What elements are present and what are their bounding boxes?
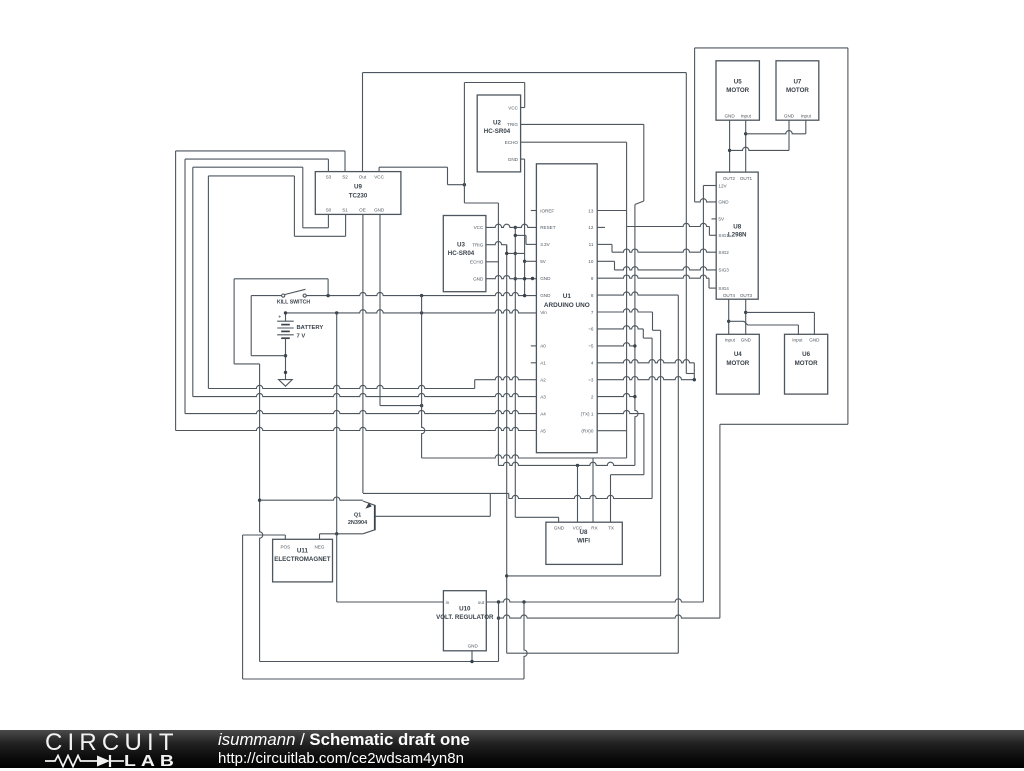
- svg-text:NEG: NEG: [315, 545, 325, 550]
- svg-text:OUT3: OUT3: [740, 293, 753, 298]
- svg-text:U2: U2: [493, 119, 501, 126]
- svg-text:GND: GND: [554, 525, 565, 530]
- svg-text:13: 13: [588, 208, 594, 213]
- svg-text:GND: GND: [508, 157, 519, 162]
- svg-text:A5: A5: [540, 428, 546, 433]
- svg-text:ARDUINO UNO: ARDUINO UNO: [544, 302, 590, 309]
- svg-text:MOTOR: MOTOR: [726, 87, 749, 94]
- svg-text:ELECTROMAGNET: ELECTROMAGNET: [274, 556, 331, 563]
- svg-text:9: 9: [591, 276, 594, 281]
- svg-text:~5: ~5: [588, 344, 594, 349]
- svg-text:out: out: [478, 600, 485, 605]
- svg-text:HC-SR04: HC-SR04: [448, 250, 475, 257]
- svg-text:GND: GND: [784, 113, 795, 118]
- svg-text:TRIG: TRIG: [507, 122, 518, 127]
- svg-text:~6: ~6: [588, 327, 594, 332]
- svg-text:5V: 5V: [540, 259, 547, 264]
- svg-text:VOLT. REGULATOR: VOLT. REGULATOR: [436, 614, 494, 621]
- svg-text:TRIG: TRIG: [472, 243, 483, 248]
- svg-text:8: 8: [591, 293, 594, 298]
- svg-text:12: 12: [588, 225, 594, 230]
- svg-text:5V: 5V: [718, 217, 725, 222]
- svg-text:L298N: L298N: [728, 232, 747, 239]
- svg-text:GND: GND: [809, 337, 820, 342]
- svg-text:SIG2: SIG2: [718, 250, 729, 255]
- svg-text:GND: GND: [473, 277, 484, 282]
- svg-text:3.3V: 3.3V: [540, 242, 550, 247]
- svg-text:KILL SWITCH: KILL SWITCH: [277, 300, 311, 306]
- svg-text:GND: GND: [374, 208, 385, 213]
- svg-text:A3: A3: [540, 394, 546, 399]
- svg-text:Q1: Q1: [354, 513, 361, 519]
- svg-text:GND: GND: [724, 113, 735, 118]
- svg-text:A1: A1: [540, 361, 546, 366]
- svg-text:(RX)0: (RX)0: [581, 428, 593, 433]
- svg-text:ECHO: ECHO: [505, 140, 519, 145]
- svg-text:12V: 12V: [718, 183, 727, 188]
- svg-text:Input: Input: [801, 113, 812, 118]
- svg-text:GND: GND: [468, 644, 479, 649]
- svg-text:S1: S1: [342, 208, 348, 213]
- svg-text:4: 4: [591, 361, 594, 366]
- svg-text:S0: S0: [326, 208, 332, 213]
- svg-text:2N3904: 2N3904: [348, 520, 368, 526]
- svg-text:U7: U7: [793, 79, 801, 86]
- svg-text:POS: POS: [280, 545, 290, 550]
- svg-text:SIG4: SIG4: [718, 286, 729, 291]
- svg-text:U9: U9: [354, 183, 362, 190]
- svg-text:VCC: VCC: [374, 175, 384, 180]
- svg-text:Vin: Vin: [540, 310, 547, 315]
- svg-text:Input: Input: [741, 113, 752, 118]
- svg-text:VCC: VCC: [508, 105, 518, 110]
- svg-text:Out: Out: [359, 175, 367, 180]
- svg-text:MOTOR: MOTOR: [795, 360, 818, 367]
- svg-text:U8: U8: [733, 223, 741, 230]
- svg-text:10: 10: [588, 259, 594, 264]
- svg-text:RX: RX: [591, 525, 597, 530]
- svg-text:U10: U10: [459, 606, 471, 613]
- svg-text:MOTOR: MOTOR: [786, 87, 809, 94]
- svg-text:+: +: [278, 314, 281, 320]
- svg-text:~3: ~3: [588, 378, 594, 383]
- svg-text:OUT4: OUT4: [723, 293, 736, 298]
- svg-text:OUT1: OUT1: [740, 176, 753, 181]
- svg-text:OUT2: OUT2: [723, 176, 736, 181]
- svg-text:U6: U6: [802, 351, 810, 358]
- svg-text:U5: U5: [734, 79, 742, 86]
- svg-text:S2: S2: [342, 175, 348, 180]
- svg-text:11: 11: [589, 242, 594, 247]
- svg-text:RESET: RESET: [540, 225, 556, 230]
- svg-text:TX: TX: [608, 525, 614, 530]
- svg-text:U3: U3: [457, 242, 465, 249]
- svg-text:7: 7: [591, 310, 594, 315]
- svg-text:GND: GND: [540, 276, 551, 281]
- svg-text:ECHO: ECHO: [470, 260, 484, 265]
- svg-text:SIG1: SIG1: [718, 233, 729, 238]
- svg-text:HC-SR04: HC-SR04: [484, 128, 511, 135]
- svg-text:OE: OE: [359, 208, 366, 213]
- svg-text:in: in: [446, 600, 450, 605]
- svg-text:TC230: TC230: [349, 192, 368, 199]
- svg-text:BATTERY: BATTERY: [297, 325, 324, 331]
- svg-text:U1: U1: [563, 293, 572, 300]
- svg-text:A0: A0: [540, 344, 546, 349]
- svg-text:(TX) 1: (TX) 1: [581, 411, 594, 416]
- svg-text:GND: GND: [540, 293, 551, 298]
- svg-text:GND: GND: [718, 200, 729, 205]
- svg-text:VCC: VCC: [573, 525, 583, 530]
- svg-text:A2: A2: [540, 378, 546, 383]
- svg-text:7 V: 7 V: [297, 334, 306, 340]
- svg-text:U4: U4: [734, 351, 742, 358]
- svg-text:SIG3: SIG3: [718, 268, 729, 273]
- svg-text:IOREF: IOREF: [540, 208, 554, 213]
- svg-text:2: 2: [591, 394, 594, 399]
- svg-text:GND: GND: [741, 337, 752, 342]
- svg-text:Input: Input: [725, 337, 736, 342]
- svg-text:A4: A4: [540, 411, 546, 416]
- svg-text:S3: S3: [326, 175, 332, 180]
- svg-text:VCC: VCC: [474, 225, 484, 230]
- svg-text:Input: Input: [792, 337, 803, 342]
- svg-text:WIFI: WIFI: [577, 538, 590, 545]
- svg-text:U11: U11: [297, 547, 309, 554]
- svg-text:MOTOR: MOTOR: [726, 360, 749, 367]
